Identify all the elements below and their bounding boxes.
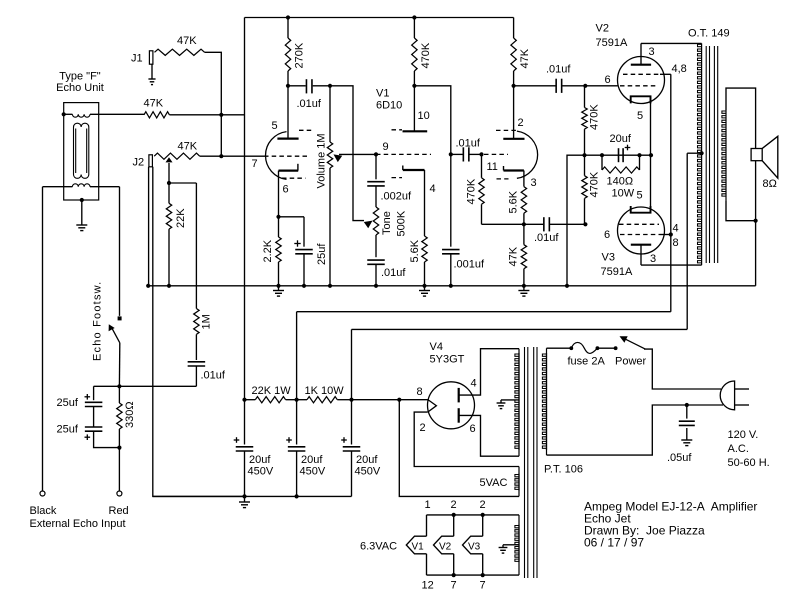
node bus J2 sleeve xyxy=(146,284,150,288)
svg-text:6: 6 xyxy=(605,74,611,86)
wire echo switch line xyxy=(94,385,197,387)
svg-text:10W: 10W xyxy=(612,188,635,200)
node bus volume xyxy=(328,284,332,288)
wire J2 sleeve to bus xyxy=(148,167,150,286)
svg-text:.01uf: .01uf xyxy=(381,267,406,279)
resistor R-2.2K cathode xyxy=(278,217,280,237)
svg-text:5Y3GT: 5Y3GT xyxy=(430,354,465,366)
wire mix node down xyxy=(220,115,222,156)
svg-text:2: 2 xyxy=(451,499,457,511)
node bus tone cap xyxy=(374,284,378,288)
tube V2 plate pin 3 xyxy=(631,64,651,66)
node row 22K left xyxy=(242,398,246,402)
node row V4 pin8 xyxy=(397,398,401,402)
wire echo right to footswitch xyxy=(119,187,121,316)
wire J2 aux down to lower bus xyxy=(153,167,245,497)
svg-text:.01uf: .01uf xyxy=(456,138,481,150)
svg-text:.001uf: .001uf xyxy=(454,259,486,271)
svg-text:47K: 47K xyxy=(519,48,531,68)
svg-text:.01uf: .01uf xyxy=(201,370,226,382)
resistor R-22K 1W xyxy=(255,397,285,403)
node V3 screen junction xyxy=(669,232,673,236)
transformer PT 5VAC winding xyxy=(518,467,520,497)
wire V4 pin2 to 5VAC xyxy=(414,412,519,466)
plug prong top xyxy=(735,388,749,390)
capacitor C-.01uf stage1 coupling xyxy=(288,85,306,87)
node heater top V2 xyxy=(452,513,456,517)
transformer OT secondary winding xyxy=(725,110,727,200)
plug AC xyxy=(720,381,734,410)
svg-text:Tone: Tone xyxy=(381,211,393,235)
svg-text:2: 2 xyxy=(518,117,524,129)
capacitor C-.01uf to V3 grid xyxy=(524,223,543,225)
svg-text:470K: 470K xyxy=(466,178,478,204)
svg-text:22K: 22K xyxy=(175,208,187,228)
resistor R-47K echo mix xyxy=(144,112,169,118)
capacitor C-20uf 450V no3 xyxy=(351,400,353,445)
wire OT feed drop xyxy=(351,329,353,399)
svg-text:8: 8 xyxy=(417,386,423,398)
tube V1b cathode pin 4 xyxy=(402,166,404,171)
svg-text:10: 10 xyxy=(418,110,430,122)
tube V1a envelope bottom dashes xyxy=(282,177,306,179)
ground symbol at 5.6K xyxy=(424,286,426,290)
transformer PT primary winding xyxy=(546,348,548,455)
svg-text:.01uf: .01uf xyxy=(534,232,559,244)
potentiometer Volume 1M xyxy=(329,86,331,142)
node bus .001uf xyxy=(449,284,453,288)
svg-text:Echo Footsw.: Echo Footsw. xyxy=(92,281,104,361)
capacitor C-20uf bias xyxy=(618,148,620,162)
svg-text:Echo Unit: Echo Unit xyxy=(56,82,104,94)
svg-text:5.6K: 5.6K xyxy=(508,190,520,213)
resistor R-5.6K cathode unit3 xyxy=(521,187,526,214)
wire plate V1a lead xyxy=(287,86,289,139)
terminal Red xyxy=(117,491,122,496)
node plate10 junction xyxy=(412,84,416,88)
svg-text:2.2K: 2.2K xyxy=(262,239,274,262)
capacitor C-25uf upper xyxy=(93,386,95,400)
svg-text:500K: 500K xyxy=(396,210,408,236)
echo unit bottom coil xyxy=(43,186,73,188)
svg-text:3: 3 xyxy=(531,177,537,189)
wire PT primary top to fuse xyxy=(547,347,572,349)
svg-text:25uf: 25uf xyxy=(316,243,328,265)
svg-text:V2: V2 xyxy=(596,23,609,35)
terminal Black xyxy=(40,491,45,496)
wire cathode to 25uf xyxy=(279,216,305,218)
node 47K mix junction xyxy=(219,113,223,117)
svg-text:Power: Power xyxy=(615,356,647,368)
svg-text:V4: V4 xyxy=(430,341,443,353)
svg-text:7591A: 7591A xyxy=(596,37,628,49)
capacitor C-25uf lower xyxy=(93,407,95,427)
tube V4 plate pin 6 xyxy=(458,408,460,423)
node heater top V3 xyxy=(481,513,485,517)
wire 25uf bottom xyxy=(94,431,120,447)
svg-text:J2: J2 xyxy=(133,157,145,169)
node grid9 junction .002uf xyxy=(374,152,378,156)
capacitor C-20uf 450V no2 xyxy=(296,400,298,445)
ground symbol at 47K xyxy=(523,286,525,290)
capacitor C-.001uf xyxy=(450,154,452,246)
svg-text:3: 3 xyxy=(650,253,656,265)
jack J1 xyxy=(149,51,153,64)
resistor R-22K xyxy=(168,183,170,203)
capacitor C-.01uf tone xyxy=(367,259,385,261)
resistor R-47K plate load unit3 xyxy=(513,18,515,39)
node heater bottom V2 xyxy=(452,573,456,577)
svg-text:Type "F": Type "F" xyxy=(59,71,101,83)
node .05uf junction xyxy=(685,403,689,407)
node 140R right junction xyxy=(637,153,641,157)
tube V1c plate bar pin 2 xyxy=(503,138,524,140)
node echo box top-left xyxy=(62,112,66,116)
node echo box bottom xyxy=(80,198,84,202)
speaker 8 ohm xyxy=(751,149,762,161)
svg-text:P.T. 106: P.T. 106 xyxy=(544,464,583,476)
svg-text:7591A: 7591A xyxy=(601,266,633,278)
transformer PT HV winding xyxy=(518,349,520,457)
svg-text:V3: V3 xyxy=(602,252,615,264)
tube V2 cathode pin 5 xyxy=(631,96,651,103)
wire plate10 to coupling xyxy=(414,86,450,155)
node plate V1a / 270K / cap junction xyxy=(286,84,290,88)
ground symbol .05uf xyxy=(681,439,692,441)
tube V1a cathode pin 6 xyxy=(297,164,299,171)
node V2 grid junction xyxy=(583,84,587,88)
heater arrow V3 xyxy=(482,515,484,536)
svg-text:V1: V1 xyxy=(376,88,389,100)
node top rail junction at 270K xyxy=(286,15,290,19)
node plate2 junction xyxy=(511,84,515,88)
tube V3 control grid dashes pin 6 xyxy=(619,223,659,225)
svg-text:270K: 270K xyxy=(294,42,306,68)
fuse 2A xyxy=(571,342,597,353)
ground symbol J1 xyxy=(151,64,153,79)
node row mid xyxy=(295,398,299,402)
svg-text:5: 5 xyxy=(637,110,643,122)
svg-text:.01uf: .01uf xyxy=(546,64,571,76)
resistor R-270K plate load xyxy=(287,18,289,39)
tube V4 filament xyxy=(428,400,437,413)
tube V1a envelope top dashes xyxy=(299,129,314,131)
node junction 5.6K/470K/.01/47K xyxy=(522,222,526,226)
wire plate2 lead xyxy=(513,86,515,139)
wire screen feed drop xyxy=(296,312,298,400)
tube V3 cathode pin 5 xyxy=(631,206,651,213)
svg-text:5.6K: 5.6K xyxy=(409,239,421,262)
svg-text:5: 5 xyxy=(637,190,643,202)
node fuse right xyxy=(596,346,600,350)
svg-text:1K 10W: 1K 10W xyxy=(305,385,345,397)
wire plate10 lead xyxy=(413,86,415,132)
capacitor C-.002uf xyxy=(375,154,377,179)
node bus 5.6K xyxy=(422,284,426,288)
svg-text:9: 9 xyxy=(383,141,389,153)
node switch contact xyxy=(614,346,618,350)
echo unit box xyxy=(64,103,99,200)
node lower bus cap2 xyxy=(295,494,299,498)
echo unit inner transducer xyxy=(74,123,89,127)
svg-text:330Ω: 330Ω xyxy=(124,401,136,428)
node 22K top junction xyxy=(167,181,171,185)
jack J2 xyxy=(149,155,153,167)
svg-text:50-60 H.: 50-60 H. xyxy=(728,457,770,469)
svg-text:V3: V3 xyxy=(468,542,481,553)
svg-text:Black: Black xyxy=(30,505,57,517)
svg-text:20uf: 20uf xyxy=(610,133,632,145)
wire fuse to switch contact xyxy=(597,347,615,349)
svg-text:.002uf: .002uf xyxy=(381,191,413,203)
svg-text:6D10: 6D10 xyxy=(376,100,402,112)
svg-text:7: 7 xyxy=(252,158,258,170)
tube V1a grid dashes pin 7 xyxy=(264,155,309,157)
node volume top junction xyxy=(328,84,332,88)
resistor R-470K grid unit3 xyxy=(481,154,483,177)
svg-text:20uf: 20uf xyxy=(301,454,323,466)
node bias network left junction xyxy=(582,153,586,157)
transformer PT core xyxy=(524,347,526,578)
wire OT secondary top to speaker xyxy=(726,88,756,148)
jack J2 contact arrow xyxy=(166,157,173,162)
tube V1a envelope arc xyxy=(265,132,286,180)
node OT center tap xyxy=(700,151,704,155)
svg-text:2: 2 xyxy=(480,499,486,511)
svg-text:4: 4 xyxy=(673,223,679,235)
ground symbol echo box xyxy=(81,200,83,225)
tube V1c envelope top dashes xyxy=(496,129,518,131)
svg-text:6: 6 xyxy=(470,423,476,435)
node bus 22K xyxy=(167,284,171,288)
wire switch to plug top xyxy=(644,349,721,389)
svg-text:450V: 450V xyxy=(355,466,381,478)
svg-text:12: 12 xyxy=(422,580,434,592)
wiper arrow Tone xyxy=(364,221,373,229)
node heater bottom V3 xyxy=(481,573,485,577)
ground symbol lower bus xyxy=(244,496,246,501)
node V3 grid junction xyxy=(583,222,587,226)
resistor R-47K to ground xyxy=(523,224,525,244)
wire speaker to ground bus xyxy=(755,161,757,221)
PT HV center tap ground xyxy=(501,399,519,401)
wire volume top to tone xyxy=(330,86,364,221)
svg-text:47K: 47K xyxy=(144,98,164,110)
resistor R-330ohm xyxy=(118,386,120,403)
svg-text:V1: V1 xyxy=(412,542,425,553)
tube V3 envelope xyxy=(618,207,665,254)
wire lower ground bus xyxy=(153,495,352,497)
heater arrow V1 xyxy=(426,515,428,536)
svg-text:J1: J1 xyxy=(131,53,143,65)
wire node B to Red xyxy=(118,448,120,492)
capacitor C-.05uf line xyxy=(686,405,688,419)
svg-text:47K: 47K xyxy=(508,246,520,266)
node 140R left junction xyxy=(600,153,604,157)
tube V2 screen grid dashes xyxy=(623,73,660,75)
svg-text:7: 7 xyxy=(451,580,457,592)
svg-text:Red: Red xyxy=(109,505,129,517)
wire grid V1a lead xyxy=(221,155,264,157)
svg-text:6.3VAC: 6.3VAC xyxy=(360,541,397,553)
node row right xyxy=(349,398,353,402)
node cathode V1a junction xyxy=(276,215,280,219)
wire V4 pin8 to 5VAC xyxy=(399,400,519,497)
node speaker return junction xyxy=(754,219,758,223)
node fuse left xyxy=(569,346,573,350)
wire V2 plate to OT xyxy=(641,42,702,44)
node grid11 junction xyxy=(479,152,483,156)
svg-text:4,8: 4,8 xyxy=(672,63,687,75)
svg-text:1M: 1M xyxy=(201,314,213,329)
node top rail junction at 470K xyxy=(412,15,416,19)
wire OT B+ feed line xyxy=(352,328,688,330)
svg-text:fuse 2A: fuse 2A xyxy=(568,356,606,368)
node bus 2.2K xyxy=(276,284,280,288)
svg-text:450V: 450V xyxy=(300,466,326,478)
wire mix node to B+ line xyxy=(221,114,244,116)
svg-text:V2: V2 xyxy=(439,542,452,553)
svg-text:06 / 17 / 97: 06 / 17 / 97 xyxy=(584,536,644,550)
wire V3 plate to OT xyxy=(641,264,702,266)
svg-text:6: 6 xyxy=(283,184,289,196)
ground symbol at 2.2K xyxy=(278,286,280,290)
switch echo footswitch blade xyxy=(112,328,120,343)
wire PT primary bottom xyxy=(547,405,724,455)
node cathode line junction xyxy=(649,153,653,157)
svg-text:20uf: 20uf xyxy=(249,454,271,466)
echo unit top coil xyxy=(64,113,73,115)
resistor R-470K plate load unit2 xyxy=(413,18,415,39)
svg-text:22K 1W: 22K 1W xyxy=(252,385,292,397)
resistor R-140ohm 10W xyxy=(601,155,603,170)
svg-text:47K: 47K xyxy=(177,35,197,47)
resistor R-1K 10W xyxy=(307,397,337,403)
svg-text:140Ω: 140Ω xyxy=(607,176,634,188)
tube V3 screen grid dashes xyxy=(620,234,660,236)
capacitor C-25uf cathode bypass xyxy=(295,249,313,251)
svg-text:7: 7 xyxy=(480,580,486,592)
node ground bus at bias return xyxy=(565,284,569,288)
capacitor C-.01uf interstage xyxy=(451,153,463,155)
svg-text:470K: 470K xyxy=(589,171,601,197)
tube V1c envelope arc xyxy=(517,131,538,178)
tube V1a plate bar pin 5 xyxy=(277,138,298,140)
wire screen bus 4,8 xyxy=(670,74,672,311)
plug prong bottom xyxy=(735,404,749,406)
tube V1b plate bar pin 10 xyxy=(403,130,428,132)
wire footswitch to node A xyxy=(118,343,120,387)
tube V1b grid dashes pin 9 xyxy=(376,153,431,155)
wire 22K node to 1M xyxy=(169,182,196,184)
capacitor C-.01uf echo xyxy=(188,361,206,363)
svg-text:25uf: 25uf xyxy=(57,424,79,436)
node lower bus cap1 xyxy=(242,494,246,498)
tube V2 envelope xyxy=(618,57,665,104)
transformer PT 6.3VAC winding xyxy=(518,515,520,575)
switch echo footswitch contact xyxy=(118,316,122,320)
wire bias network to ground bus xyxy=(567,155,585,286)
svg-text:20uf: 20uf xyxy=(356,454,378,466)
svg-text:470K: 470K xyxy=(420,42,432,68)
node bus 47K xyxy=(522,284,526,288)
resistor R-1M xyxy=(195,183,197,309)
svg-text:O.T. 149: O.T. 149 xyxy=(688,28,730,40)
node bus 25uf xyxy=(302,284,306,288)
transformer OT primary winding xyxy=(701,43,703,265)
tube V3 plate pin 3 xyxy=(631,244,651,246)
wire OT center tap lead xyxy=(687,152,701,154)
wire V2 cathode down to V3 xyxy=(650,96,652,212)
svg-text:6: 6 xyxy=(604,229,610,241)
tube V1c envelope bottom dashes xyxy=(497,178,509,180)
wire row to V4 xyxy=(352,399,428,401)
svg-text:8Ω: 8Ω xyxy=(763,178,777,190)
tube V2 control grid dashes pin 6 xyxy=(620,85,658,87)
svg-text:External Echo Input: External Echo Input xyxy=(30,518,126,530)
tube V4 envelope xyxy=(428,382,475,429)
svg-text:.05uf: .05uf xyxy=(667,452,692,464)
label plus 20uf xyxy=(625,147,631,149)
capacitor C-20uf 450V no1 xyxy=(244,400,246,445)
wire B+ top rail xyxy=(245,17,514,19)
resistor R-470K grid V2 xyxy=(584,86,586,108)
wire echo left to Black xyxy=(42,187,44,491)
svg-text:470K: 470K xyxy=(589,104,601,130)
resistor R-5.6K cathode unit2 xyxy=(422,236,427,262)
wire B+ left feed line xyxy=(244,18,246,400)
svg-text:11: 11 xyxy=(487,161,498,173)
svg-text:47K: 47K xyxy=(178,141,198,153)
node A echo junction xyxy=(117,384,121,388)
transformer OT core xyxy=(705,46,707,263)
PT 6.3 center tap ground xyxy=(503,544,519,546)
svg-text:3: 3 xyxy=(649,46,655,58)
svg-text:8: 8 xyxy=(673,237,679,249)
tube V1c cathode pin 3 xyxy=(503,166,505,171)
svg-text:4: 4 xyxy=(471,378,477,390)
switch Power blade xyxy=(623,338,645,349)
svg-text:120 V.: 120 V. xyxy=(728,429,759,441)
tube V1c grid dashes pin 11 xyxy=(484,153,508,155)
svg-text:4: 4 xyxy=(430,183,436,195)
tube V4 plate pin 4 xyxy=(458,388,460,403)
resistor R-470K grid V3 xyxy=(584,155,586,176)
wire main ground bus xyxy=(148,285,755,287)
wiper arrow Volume xyxy=(334,154,343,162)
svg-text:1: 1 xyxy=(425,499,431,511)
resistor R-47K J2 xyxy=(154,153,200,159)
wire heater bottom bus xyxy=(427,574,520,576)
node plate10 feed junction xyxy=(449,152,453,156)
wire heater top bus xyxy=(427,514,520,516)
node B echo junction xyxy=(117,446,121,450)
potentiometer Tone 500K xyxy=(373,207,378,235)
node J2 grid wire junction xyxy=(219,154,223,158)
wire OT secondary bottom xyxy=(726,200,756,220)
heater arrow V2 xyxy=(453,515,455,536)
svg-text:5: 5 xyxy=(272,120,278,132)
wire screen feed line xyxy=(297,311,671,313)
svg-text:5VAC: 5VAC xyxy=(480,477,508,489)
svg-text:2: 2 xyxy=(420,422,426,434)
svg-text:Volume 1M: Volume 1M xyxy=(316,133,328,188)
svg-text:25uf: 25uf xyxy=(57,397,79,409)
wire bias row xyxy=(585,154,652,156)
wire OT center tap bus xyxy=(686,153,688,329)
svg-text:.01uf: .01uf xyxy=(297,98,322,110)
svg-text:450V: 450V xyxy=(248,466,274,478)
